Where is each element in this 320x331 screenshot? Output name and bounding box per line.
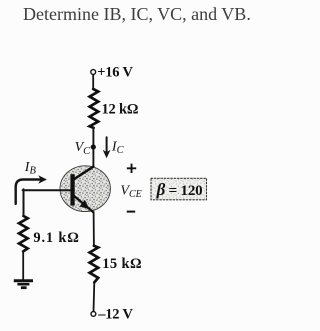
resistor 9.1 kΩ bbox=[19, 216, 28, 251]
terminal −12 V bbox=[91, 312, 96, 317]
label − (VCE minus) bbox=[127, 211, 135, 213]
resistor 12 kΩ bbox=[90, 89, 99, 128]
transistor Q1 emitter arrow bbox=[80, 200, 90, 209]
ground symbol bbox=[14, 279, 33, 282]
svg-text:+16 V: +16 V bbox=[97, 64, 133, 80]
transistor Q1 base bar bbox=[70, 174, 74, 205]
label + (VCE plus) bbox=[127, 164, 136, 173]
svg-text:15 kΩ: 15 kΩ bbox=[102, 256, 142, 272]
beta box bbox=[151, 178, 207, 200]
resistor 15 kΩ bbox=[90, 246, 99, 283]
node VC junction dot bbox=[91, 144, 96, 149]
svg-text:VC: VC bbox=[75, 140, 92, 157]
wire: R2 to ground bbox=[22, 251, 24, 279]
svg-text:β = 120: β = 120 bbox=[156, 180, 203, 199]
wire: base node down to R2 bbox=[23, 189, 25, 216]
wire: R3 to −12V terminal bbox=[93, 282, 96, 311]
svg-text:–12 V: –12 V bbox=[97, 307, 133, 323]
svg-text:VCE: VCE bbox=[120, 184, 141, 201]
svg-text:IB: IB bbox=[24, 160, 37, 177]
transistor Q1 collector lead bbox=[74, 167, 94, 180]
svg-text:12 kΩ: 12 kΩ bbox=[102, 102, 139, 118]
transistor Q1 body (stippled circle) bbox=[60, 166, 110, 212]
current arrow IC bbox=[106, 137, 108, 152]
wire: emitter down to R3 bbox=[93, 212, 95, 246]
svg-text:9.1 kΩ: 9.1 kΩ bbox=[33, 230, 79, 246]
svg-text:IC: IC bbox=[111, 139, 125, 156]
title text bbox=[23, 4, 251, 25]
terminal +16 V bbox=[91, 70, 96, 75]
current arrow IB bbox=[16, 180, 42, 204]
wire: base bbox=[23, 189, 71, 191]
transistor Q1 emitter lead bbox=[74, 196, 94, 213]
wire: R1 to collector (through node VC) bbox=[92, 128, 94, 167]
wire: +16V terminal to R1 bbox=[92, 75, 94, 89]
